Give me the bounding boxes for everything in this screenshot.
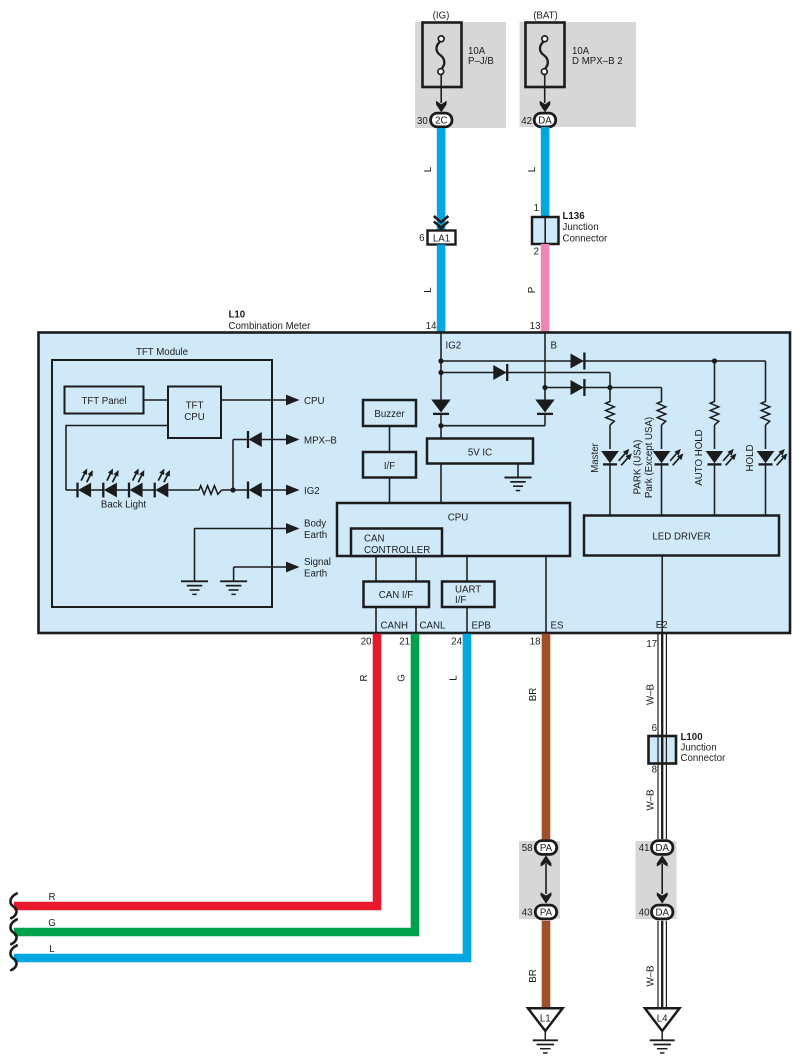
wire IG2 top rail to HOLD/AUTO HOLD <box>441 360 766 362</box>
wire CPU to UART I/F <box>466 556 468 581</box>
UART I/F box <box>442 582 495 608</box>
wire diode to MPX-B arrow <box>262 439 286 441</box>
svg-text:L4: L4 <box>657 1013 668 1024</box>
wire down to signal earth ground <box>233 567 235 581</box>
svg-text:42: 42 <box>521 116 532 127</box>
svg-text:(IG): (IG) <box>433 10 450 21</box>
ground (5V IC) <box>505 477 532 479</box>
svg-text:CPU: CPU <box>448 513 468 524</box>
output arrow CPU <box>286 395 300 406</box>
svg-text:20: 20 <box>361 636 372 647</box>
svg-text:PA: PA <box>540 908 553 919</box>
diode on B rail (points right) <box>571 380 584 395</box>
wire signal earth <box>234 566 286 568</box>
ground hatching (L1) <box>533 1039 558 1041</box>
svg-text:DA: DA <box>655 908 669 919</box>
wire 5V IC to CPU <box>440 464 442 504</box>
wire down to Master resistor <box>609 388 611 400</box>
svg-text:BR: BR <box>528 969 539 982</box>
svg-text:43: 43 <box>522 907 533 918</box>
node on B rail (Master) <box>607 385 612 390</box>
ground hatching (L4) <box>650 1039 675 1041</box>
svg-text:CPU: CPU <box>304 396 324 407</box>
svg-text:W–B: W–B <box>646 966 657 987</box>
svg-text:R: R <box>49 892 56 903</box>
back light LED 2 <box>103 468 118 497</box>
connector block shading (DA) <box>636 841 677 919</box>
connector PA pin 58 <box>535 841 556 855</box>
wire resistor to diode, node <box>222 489 248 491</box>
wire TFT CPU to CPU output <box>221 399 286 401</box>
svg-text:CAN: CAN <box>364 533 384 544</box>
svg-text:17: 17 <box>646 639 657 650</box>
svg-text:D MPX–B 2: D MPX–B 2 <box>572 56 623 67</box>
resistor (AUTO HOLD) <box>710 400 719 426</box>
svg-text:1: 1 <box>534 203 539 214</box>
svg-text:R: R <box>359 675 370 682</box>
wire R (red) CANH <box>14 634 377 906</box>
output arrow Signal Earth <box>286 562 300 573</box>
svg-text:40: 40 <box>639 907 650 918</box>
node on IG2 line (upper) <box>438 358 443 363</box>
wire TFT Panel to TFT CPU <box>144 399 169 401</box>
wire down to AUTO HOLD resistor <box>714 361 716 400</box>
svg-text:CANL: CANL <box>420 620 446 631</box>
wire B diode down <box>544 414 546 426</box>
svg-text:CAN I/F: CAN I/F <box>379 590 414 601</box>
wire IG2 vertical inside meter <box>440 333 442 400</box>
svg-text:(BAT): (BAT) <box>533 10 558 21</box>
resistor (back light) <box>197 486 222 495</box>
wire fuse (IG) to connector, with arrowhead <box>440 74 442 103</box>
svg-text:TFT Module: TFT Module <box>136 347 188 358</box>
Buzzer box <box>363 400 416 426</box>
svg-text:Back Light: Back Light <box>101 500 147 511</box>
svg-text:L1: L1 <box>540 1013 551 1024</box>
svg-text:L: L <box>423 166 434 172</box>
svg-text:LA1: LA1 <box>433 233 450 244</box>
indicator LED AUTO HOLD (points down) <box>706 449 737 465</box>
wire W-B from L100 to connector DA <box>657 763 659 839</box>
svg-text:CANH: CANH <box>381 620 408 631</box>
svg-text:Park (Except USA): Park (Except USA) <box>644 417 655 498</box>
svg-text:Master: Master <box>590 442 601 472</box>
svg-text:L10: L10 <box>229 309 246 320</box>
svg-text:CONTROLLER: CONTROLLER <box>364 545 430 556</box>
wire TFT CPU to back light string <box>66 426 168 491</box>
fuse (BAT) 10A D MPX-B 2 <box>526 23 565 88</box>
svg-text:2C: 2C <box>435 116 447 127</box>
svg-text:G: G <box>397 674 408 682</box>
wire <box>117 489 129 491</box>
CAN I/F box <box>364 582 430 608</box>
svg-text:24: 24 <box>451 636 462 647</box>
wire <box>765 425 767 449</box>
I/F box <box>363 452 416 478</box>
svg-text:EPB: EPB <box>472 620 491 631</box>
wire <box>609 425 611 449</box>
fuse block shading (IG) <box>415 22 506 128</box>
svg-text:13: 13 <box>530 321 541 332</box>
resistor (Master) <box>606 400 615 426</box>
svg-text:TFT Panel: TFT Panel <box>81 396 126 407</box>
wire ES from CPU to terminal <box>545 556 547 633</box>
wire <box>714 425 716 449</box>
connector DA pin 41 <box>652 841 673 855</box>
wire fuse (BAT) to connector, with arrowhead <box>544 74 546 103</box>
svg-text:8: 8 <box>652 765 657 776</box>
svg-text:18: 18 <box>530 636 541 647</box>
wire break squiggle (R) <box>10 893 16 918</box>
wire L (blue) from connector DA to junction connector L136 <box>541 127 550 217</box>
svg-text:L: L <box>527 166 538 172</box>
inter-connector arrows (PA) <box>541 855 552 866</box>
wire LED to LED driver <box>609 463 611 515</box>
svg-text:IG2: IG2 <box>446 340 462 351</box>
ground point L1 <box>528 1008 563 1031</box>
wire LED to LED driver <box>714 463 716 515</box>
svg-text:I/F: I/F <box>384 461 395 472</box>
connector PA pin 43 <box>535 905 556 919</box>
5V IC box <box>427 439 533 464</box>
node on B line <box>542 385 547 390</box>
svg-text:W–B: W–B <box>646 790 657 811</box>
indicator LED HOLD (points down) <box>757 449 788 465</box>
svg-text:G: G <box>48 918 56 929</box>
svg-text:P: P <box>527 287 538 293</box>
svg-text:DA: DA <box>655 843 669 854</box>
svg-text:I/F: I/F <box>455 595 466 606</box>
connector LA1 pin 6 <box>428 231 456 245</box>
svg-text:Earth: Earth <box>304 569 327 580</box>
svg-text:MPX–B: MPX–B <box>304 435 337 446</box>
output arrow IG2 <box>286 485 300 496</box>
svg-text:Earth: Earth <box>304 530 327 541</box>
wire Buzzer to I/F <box>389 426 391 452</box>
svg-text:LED DRIVER: LED DRIVER <box>652 531 710 542</box>
TFT CPU box <box>168 387 221 439</box>
svg-text:Body: Body <box>304 519 326 530</box>
svg-text:Signal: Signal <box>304 557 331 568</box>
wire LED to LED driver <box>661 463 663 515</box>
svg-text:30: 30 <box>417 116 428 127</box>
connector DA pin 40 <box>652 905 673 919</box>
svg-text:L: L <box>49 944 55 955</box>
fuse block shading (BAT) <box>520 22 636 127</box>
wire LED to LED driver <box>765 463 767 515</box>
wire W-B from E2 terminal to junction connector L100 <box>657 634 659 736</box>
wire IG2 mid rail to Master <box>441 372 610 374</box>
wire L (blue) from LA1 to combination meter pin 14 <box>437 245 446 334</box>
combination meter L10 box <box>39 333 791 634</box>
wire mid rail down to Master node <box>609 373 611 388</box>
wire W-B to ground L4 <box>657 921 659 1009</box>
wire break squiggle (G) <box>10 919 16 944</box>
svg-text:E2: E2 <box>656 620 668 631</box>
svg-text:DA: DA <box>538 116 552 127</box>
diode on mid rail (points right) <box>493 365 506 380</box>
resistor (HOLD) <box>761 400 770 426</box>
wire BR (brown) from ES terminal <box>542 634 551 840</box>
svg-text:58: 58 <box>522 843 533 854</box>
junction connector L136 <box>532 217 559 244</box>
wire B rail to PARK <box>545 387 662 389</box>
wire to back light LED 1 <box>66 489 78 491</box>
connector DA pin 42 <box>534 113 555 127</box>
svg-text:ES: ES <box>551 620 564 631</box>
LED DRIVER box <box>584 516 779 556</box>
wire CANH to terminal <box>375 607 377 633</box>
ground (signal earth) <box>220 580 247 582</box>
node below IG2 diode <box>438 423 443 428</box>
node on top rail (AUTO HOLD) <box>712 358 717 363</box>
svg-text:W–B: W–B <box>646 684 657 705</box>
node on IG2 line (lower) <box>438 370 443 375</box>
svg-text:UART: UART <box>455 585 481 596</box>
svg-text:P–J/B: P–J/B <box>468 56 494 67</box>
svg-text:Connector: Connector <box>563 234 608 245</box>
svg-text:L100: L100 <box>681 732 703 743</box>
connector block shading (PA) <box>519 841 560 919</box>
svg-text:PARK (USA): PARK (USA) <box>633 440 644 495</box>
svg-text:L: L <box>423 287 434 293</box>
svg-text:Junction: Junction <box>563 222 599 233</box>
wire G (green) CANL <box>14 634 415 932</box>
wire down to HOLD resistor <box>765 361 767 400</box>
wire IG2 diode to 5V IC <box>440 414 442 439</box>
svg-text:BR: BR <box>528 688 539 701</box>
wire <box>661 425 663 449</box>
junction connector L100 <box>649 736 677 764</box>
svg-text:Combination Meter: Combination Meter <box>229 321 312 332</box>
diode to MPX-B (points left) <box>247 431 249 448</box>
back light LED 4 <box>155 468 170 497</box>
indicator LED PARK (points down) <box>653 449 684 465</box>
wire CAN CONTROLLER to CAN I/F (left) <box>375 556 377 581</box>
node junction on IG2 row <box>230 487 235 492</box>
svg-text:41: 41 <box>639 843 650 854</box>
CPU box <box>337 503 570 556</box>
svg-text:L136: L136 <box>563 211 586 222</box>
wire CAN CONTROLLER to CAN I/F (right) <box>415 556 417 581</box>
wire LED string to resistor <box>168 489 197 491</box>
wire <box>143 489 155 491</box>
svg-text:Connector: Connector <box>681 753 726 764</box>
svg-text:5V IC: 5V IC <box>468 447 492 458</box>
wire EPB to terminal <box>466 607 468 633</box>
wire W-B through L100 <box>657 737 659 764</box>
svg-text:PA: PA <box>540 843 553 854</box>
CAN CONTROLLER box <box>351 529 442 557</box>
wire body earth <box>194 528 286 530</box>
back light LED 1 <box>78 468 93 497</box>
diode on B line (points down) <box>535 400 554 413</box>
svg-text:6: 6 <box>419 233 424 244</box>
wire node up to MPX-B row <box>232 440 234 491</box>
wire 5V IC to ground <box>517 464 519 478</box>
wire L (blue) EPB <box>14 634 467 958</box>
output arrow Body Earth <box>286 523 300 534</box>
svg-text:B: B <box>551 340 557 351</box>
diode on IG2 line (points down) <box>431 400 450 413</box>
svg-text:TFT: TFT <box>186 401 204 412</box>
wire <box>91 489 103 491</box>
svg-text:2: 2 <box>534 246 539 257</box>
wire L (blue) from connector 2C to connector LA1 <box>437 128 446 231</box>
svg-text:Buzzer: Buzzer <box>374 409 405 420</box>
svg-text:14: 14 <box>426 321 437 332</box>
svg-text:L: L <box>449 675 460 681</box>
wire break squiggle (L) <box>10 945 16 970</box>
ground point L4 <box>645 1008 680 1031</box>
inter-connector arrows (DA) <box>657 855 668 866</box>
wire CANL to terminal <box>415 607 417 633</box>
TFT Panel box <box>65 387 144 414</box>
wire B vertical inside meter <box>544 333 546 400</box>
wire LED DRIVER to E2 terminal <box>661 556 663 634</box>
svg-text:AUTO HOLD: AUTO HOLD <box>694 429 705 485</box>
svg-text:21: 21 <box>399 636 410 647</box>
svg-text:IG2: IG2 <box>304 486 320 497</box>
resistor (PARK) <box>657 400 666 426</box>
connector LA1 chevron symbol <box>434 216 449 228</box>
wire down to PARK resistor <box>661 388 663 400</box>
TFT Module box <box>52 360 272 607</box>
wire down to body earth ground <box>194 529 196 582</box>
wire I/F to CPU <box>389 478 391 504</box>
diode on top rail (points right) <box>571 354 584 369</box>
svg-text:6: 6 <box>652 723 657 734</box>
fuse (IG) 10A P-J/B <box>423 23 462 88</box>
wire P (pink) from L136 to combination meter pin 13 <box>541 244 550 333</box>
svg-text:Junction: Junction <box>681 743 717 754</box>
wire to MPX-B diode <box>233 439 248 441</box>
svg-text:CPU: CPU <box>184 412 204 423</box>
diode to IG2 (points left) <box>247 482 249 499</box>
wire BR (brown) to ground L1 <box>542 921 551 1009</box>
wire joining B diode to IG2 node <box>441 425 545 427</box>
wire diode to IG2 arrow <box>262 489 286 491</box>
svg-text:HOLD: HOLD <box>745 445 756 472</box>
output arrow MPX-B <box>286 434 300 445</box>
connector 2C pin 30 <box>431 113 452 127</box>
ground (body earth) <box>181 580 208 582</box>
indicator LED Master (points down) <box>601 449 632 465</box>
back light LED 3 <box>129 468 144 497</box>
